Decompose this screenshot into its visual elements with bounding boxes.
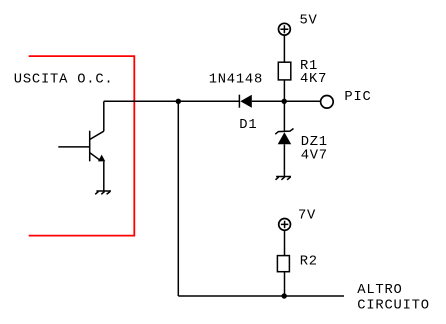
ground (transistor emitter) [95,191,111,194]
diode D1 [239,95,251,108]
terminal PIC [321,96,334,109]
svg-text:D1: D1 [239,118,257,133]
svg-text:ALTRO: ALTRO [357,283,402,298]
wire collector to diode [104,100,240,102]
transistor Q1 [58,131,105,162]
wire R2 to bottom node [284,272,286,296]
node junction left [176,99,181,104]
svg-text:4V7: 4V7 [301,149,328,164]
svg-text:R2: R2 [300,254,318,269]
svg-text:5V: 5V [300,14,318,29]
node junction middle [282,99,287,104]
svg-text:7V: 7V [298,209,316,224]
wire R1 to node [283,80,285,101]
svg-text:1N4148: 1N4148 [209,73,263,88]
5V supply symbol [279,23,291,35]
resistor R2 [277,256,289,272]
red enclosure box (open on left) [29,56,135,236]
svg-text:CIRCUITO: CIRCUITO [357,298,429,313]
node junction bottom [282,293,287,298]
wire zener to ground [283,144,285,176]
wire 5V to R1 [283,35,285,62]
wire node to zener [283,101,285,132]
zener diode DZ1 [275,129,293,145]
svg-text:4K7: 4K7 [300,72,327,87]
ground (zener) [276,177,292,180]
resistor R1 [278,62,291,80]
svg-text:USCITA O.C.: USCITA O.C. [14,72,114,87]
wire emitter down [103,162,105,192]
svg-text:PIC: PIC [344,90,371,105]
7V supply symbol [279,219,291,231]
wire collector up [103,101,105,131]
wire 7V to R2 [284,230,286,256]
wire diode to PIC [252,100,320,102]
wire bottom horizontal [178,295,344,297]
wire vertical left down [177,101,179,296]
